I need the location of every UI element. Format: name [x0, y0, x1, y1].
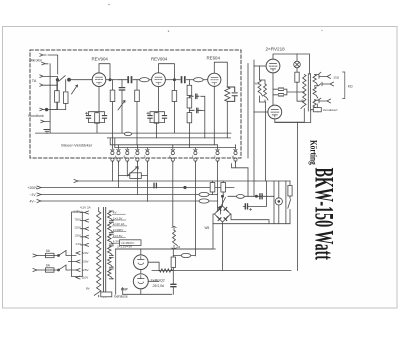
- node switch left dot: [56, 79, 58, 81]
- fuse F1: [46, 253, 55, 257]
- svg-text:150V: 150V: [82, 260, 89, 264]
- output tube V5 electrodes: [271, 110, 279, 117]
- bridge rectifier BR1 cells: [217, 208, 228, 221]
- wire V5 grid: [254, 111, 268, 113]
- wire bridge right: [231, 214, 270, 224]
- svg-text:G: G: [214, 154, 216, 158]
- wire decoupling common: [201, 96, 205, 133]
- resistor R5b plate load V2: [173, 80, 175, 91]
- svg-text:PhP: PhP: [121, 288, 128, 292]
- wire tubes link: [140, 249, 142, 294]
- svg-text:2×RGQ2: 2×RGQ2: [151, 279, 165, 283]
- capacitor C13: [279, 88, 284, 90]
- potentiometer P3 arrow: [128, 167, 138, 176]
- switch S4 blade N: [59, 265, 67, 270]
- wire R1 R2 bottom join: [50, 102, 66, 109]
- dashed enclosure of control amplifier: [30, 50, 241, 158]
- rectifier tube V6 filament: [138, 257, 145, 265]
- wire heater bottom row: [123, 293, 172, 295]
- wire inter-tube vertical: [272, 73, 274, 105]
- wire cathode parts to rail: [89, 119, 105, 133]
- terminal arrow bus 4: [37, 200, 41, 203]
- terminal arrow bus 1: [74, 180, 78, 183]
- resistor R6 oval grid stopper: [194, 78, 204, 82]
- wire R6 to V3 grid: [203, 79, 208, 81]
- tap arrow 125V: [76, 269, 80, 272]
- wire bus 1: [78, 180, 256, 182]
- svg-text:A: A: [115, 154, 117, 158]
- potentiometer P3 box: [130, 173, 142, 179]
- pin A0: [111, 138, 114, 163]
- wire B+ loop right: [297, 122, 299, 270]
- pin E: [171, 145, 174, 163]
- node bridge top dot: [221, 195, 223, 197]
- svg-text:2×3,5V: 2×3,5V: [113, 216, 123, 220]
- svg-text:4,75V: 4,75V: [73, 209, 80, 213]
- transformer T2 core: [103, 208, 105, 298]
- wire V2 cathode parts to rail: [150, 119, 165, 133]
- wire cap to R6: [186, 79, 193, 81]
- wire secondary tap 3: [315, 98, 321, 100]
- wire V5 plate to transformer bottom: [275, 109, 305, 123]
- svg-text:4,2V 2A: 4,2V 2A: [80, 206, 91, 210]
- wire grid leak drops: [57, 80, 66, 91]
- capacitor C7 plus: [147, 112, 149, 114]
- bridge rectifier BR1: [215, 206, 231, 222]
- wire pin feed upper: [110, 138, 217, 145]
- wire tube V6 right heater: [148, 262, 159, 281]
- resistor R15 hanging: [222, 181, 224, 183]
- wire lamp branch: [296, 54, 298, 72]
- wire bottom long return: [152, 270, 291, 272]
- resistor R3 plate load: [112, 80, 114, 90]
- transformer T2 secondary winding right: [108, 211, 113, 279]
- capacitor C1 coupling: [128, 77, 131, 82]
- inductor L3 grid choke: [258, 66, 263, 102]
- meter M1: [275, 198, 282, 205]
- fuse F2: [46, 268, 55, 272]
- input jack Rundfunk upper: [40, 108, 46, 111]
- triode V3 RE604 envelope: [208, 73, 221, 86]
- capacitor C15 on bus2: [154, 183, 156, 187]
- switch S2 blade: [221, 198, 226, 208]
- pin H: [234, 145, 237, 163]
- terminal arrow mains L: [33, 254, 37, 257]
- svg-text:750V: 750V: [75, 218, 81, 222]
- rectifier tube V7 filament: [138, 276, 145, 284]
- triode V2 electrodes: [155, 77, 162, 84]
- svg-text:110V: 110V: [82, 276, 89, 280]
- node S2 dots: [219, 206, 221, 208]
- wire V2 cathode drop: [150, 87, 165, 116]
- node input junction dot: [45, 108, 48, 111]
- triode V1 REV904 envelope: [92, 73, 106, 87]
- svg-text:H: H: [232, 154, 234, 158]
- lamp LP1: [294, 61, 301, 68]
- speck top right: [321, 30, 322, 31]
- wire pin F drop: [194, 161, 196, 256]
- wire R19 row: [173, 255, 195, 257]
- svg-text:6,3V: 6,3V: [113, 240, 119, 244]
- capacitor C4: [86, 116, 90, 119]
- svg-text:220V: 220V: [75, 226, 81, 230]
- wire right branch down: [273, 181, 275, 224]
- svg-text:Mikrofon: Mikrofon: [29, 58, 42, 62]
- svg-text:−2V: −2V: [30, 193, 37, 197]
- svg-text:a=4V 2A: a=4V 2A: [113, 222, 125, 226]
- wire fuse to switch: [54, 256, 59, 271]
- wire V3 cathode: [213, 86, 215, 133]
- capacitor C16 series dark: [260, 194, 262, 199]
- wire winding ends: [98, 208, 100, 297]
- potentiometer P1 arrow: [72, 85, 78, 94]
- svg-text:2×300V: 2×300V: [113, 228, 123, 232]
- resistor R14 hanging: [212, 181, 214, 183]
- wire switch to V1 grid: [70, 79, 92, 81]
- wire switch to primary taps: [66, 251, 76, 271]
- node switch right dot: [68, 78, 71, 81]
- rectifier tube V7 envelope: [133, 274, 148, 289]
- input jack TA upper: [40, 75, 50, 78]
- capacitor C18: [171, 284, 176, 286]
- wire mic to selector bus: [48, 55, 58, 74]
- terminal arrow mains N: [33, 269, 37, 272]
- svg-text:E: E: [169, 154, 171, 158]
- output tube V4 electrodes: [269, 64, 277, 71]
- svg-text:4V: 4V: [113, 211, 117, 215]
- output tube V5 RV218 envelope: [268, 105, 282, 119]
- wire bridge bottom down: [222, 223, 224, 271]
- ground symbol: [44, 130, 50, 134]
- svg-text:+200V: +200V: [28, 186, 39, 190]
- rheostat RH1 arrows: [172, 226, 176, 249]
- transformer T2 secondary taps left: [81, 211, 89, 277]
- capacitor C2 blocking: [119, 88, 124, 90]
- wire input ground drop: [49, 122, 51, 134]
- resistor R12 oval bus3: [199, 192, 209, 196]
- svg-text:2×3,5V=3A: 2×3,5V=3A: [117, 245, 132, 249]
- svg-text:2,5V: 2,5V: [76, 242, 82, 246]
- wire caps tie: [273, 89, 304, 95]
- wire V3 top to cathode coil: [214, 62, 227, 87]
- resistor R10 divider low: [188, 108, 190, 113]
- wire P2 to ground: [121, 102, 123, 134]
- wire secondary tap 2: [315, 84, 321, 86]
- wire meter stems: [278, 181, 280, 224]
- wire heater common row: [108, 137, 231, 139]
- input jack Mikrofon upper: [40, 54, 46, 57]
- wire pin feed lower: [115, 138, 236, 148]
- wire secondary common drop: [316, 104, 318, 108]
- pin D: [146, 148, 149, 163]
- svg-text:W5: W5: [255, 82, 260, 86]
- terminal arrow bus 2: [37, 186, 41, 189]
- terminal arrow out 3: [319, 99, 331, 103]
- svg-text:KΩ: KΩ: [348, 85, 353, 89]
- wire secondary tap 1: [315, 72, 321, 74]
- wire V1 plate line: [106, 79, 119, 81]
- wire V1 cathode drop: [89, 87, 105, 116]
- svg-text:REV904: REV904: [92, 57, 109, 62]
- resistor R20 oval on rail: [124, 132, 131, 135]
- switch S4 blade L: [59, 251, 67, 256]
- node junction dot row196: [255, 195, 257, 197]
- resistor R13 oval bus4: [199, 199, 209, 203]
- capacitor C6 coupling: [182, 77, 185, 82]
- wire S2 to bridge: [219, 207, 221, 214]
- wire secondary tap rows right: [109, 211, 113, 279]
- wire bridge left down: [116, 214, 215, 249]
- svg-text:2×3,5V: 2×3,5V: [113, 234, 123, 238]
- resistor R1: [55, 91, 60, 103]
- pin F: [194, 148, 197, 163]
- capacitor C17 electrolytic: [245, 204, 247, 209]
- capacitor C5: [102, 116, 106, 119]
- wire pot tap: [74, 89, 76, 91]
- svg-text:25Ω: 25Ω: [334, 75, 340, 79]
- wire pin A drop: [118, 161, 120, 188]
- resistor R4 cathode: [95, 113, 100, 124]
- resistor R19 oval: [181, 253, 191, 257]
- capacitor C7: [148, 116, 152, 119]
- inductor L5 heater winding: [158, 269, 172, 272]
- svg-text:REV904: REV904: [151, 57, 168, 62]
- resistor R2: [63, 92, 68, 104]
- wire bus3 cont: [209, 195, 218, 202]
- svg-text:Rundfunk: Rundfunk: [28, 114, 44, 118]
- tap arrow 220V: [76, 252, 80, 255]
- capacitor C9 decoupling: [189, 94, 198, 99]
- svg-text:W5: W5: [205, 226, 210, 230]
- potentiometer P2 arrow: [118, 101, 125, 111]
- pin A: [117, 145, 120, 163]
- wire control bottom bus: [213, 223, 290, 225]
- svg-text:25/1,5d: 25/1,5d: [152, 284, 164, 288]
- wire mains N: [37, 269, 46, 271]
- resistor R7 cathode: [154, 113, 159, 124]
- wire pin C drop: [136, 161, 138, 195]
- wire pin A0 drop: [111, 161, 113, 181]
- tap arrow 150V: [69, 260, 81, 263]
- svg-text:Körting: Körting: [308, 140, 319, 165]
- wire choke to V2 grid: [149, 79, 152, 81]
- pin G: [216, 145, 219, 163]
- capacitor C4 electrolytic plus: [85, 112, 87, 114]
- transformer T1 secondary winding: [313, 75, 318, 111]
- svg-text:≈2×350V≈: ≈2×350V≈: [121, 241, 135, 245]
- svg-text:P: P: [302, 99, 304, 103]
- capacitor C11 bypass: [227, 87, 237, 101]
- wire meter loop side: [285, 181, 287, 224]
- transformer T1 primary winding: [301, 75, 306, 109]
- svg-text:C: C: [134, 154, 136, 158]
- ground chassis rail: [36, 132, 232, 134]
- switch S1 blade: [59, 76, 66, 82]
- svg-text:125V: 125V: [82, 268, 89, 272]
- output tube V4 RV218 envelope: [266, 59, 280, 73]
- wire heater supply top: [115, 249, 117, 294]
- speck top center: [168, 31, 169, 32]
- terminal arrow bus 3: [37, 193, 41, 196]
- svg-text:125V: 125V: [75, 234, 81, 238]
- tap arrow 110V: [76, 276, 80, 279]
- pin B: [126, 148, 129, 163]
- wire choke return drop: [265, 102, 267, 181]
- rectifier tube V6 envelope: [134, 255, 149, 270]
- wire ground bottom left: [122, 288, 124, 295]
- wire pin D drop: [146, 161, 148, 201]
- terminal arrow out 2: [322, 82, 334, 86]
- input jack TA lower: [40, 84, 50, 87]
- node bus2 dot: [184, 186, 186, 188]
- wire V4 grid: [254, 65, 266, 67]
- resistor R5 screen: [136, 80, 138, 90]
- terminal arrow out 1: [319, 75, 331, 79]
- resistor R17: [289, 181, 291, 186]
- svg-text:Steuer-Verstärker: Steuer-Verstärker: [61, 142, 93, 147]
- triode V3 electrodes: [211, 77, 218, 84]
- triode V1 electrodes: [95, 77, 102, 84]
- pin C: [136, 145, 139, 163]
- capacitor C14: [279, 94, 284, 96]
- input jack Rundfunk lower: [41, 120, 50, 123]
- wire bus 4: [41, 200, 199, 202]
- wire R11 to primary tap: [297, 82, 304, 101]
- wire bus 3: [41, 194, 199, 196]
- bias cell box: [120, 240, 142, 246]
- inductor L2 cathode coil: [225, 87, 230, 102]
- wire pin H drop: [235, 161, 237, 163]
- wire pin E drop: [172, 161, 174, 226]
- svg-text:RE604: RE604: [207, 56, 221, 61]
- svg-text:Verstärkerf.: Verstärkerf.: [323, 108, 339, 112]
- wire bus1 extension right: [256, 180, 290, 182]
- svg-text:B: B: [124, 154, 126, 158]
- wire bus 2: [41, 187, 234, 189]
- switch S3 blade: [288, 196, 291, 224]
- capacitor C10 decoupling: [189, 108, 200, 113]
- svg-text:Gehäuse: Gehäuse: [114, 295, 128, 299]
- resistor R18: [172, 249, 174, 257]
- wire band verticals: [108, 133, 228, 148]
- transformer T1 core: [308, 74, 310, 112]
- wire C2 branch vertical: [121, 80, 123, 102]
- wire V4 plate to transformer top: [273, 54, 310, 74]
- wire input common vertical: [49, 64, 51, 122]
- wire pot to bus: [119, 175, 148, 177]
- wire rheostat top: [173, 225, 175, 227]
- wire socket drop: [275, 110, 318, 123]
- input jack Mikrofon lower: [42, 62, 48, 65]
- resistor R11: [295, 72, 299, 82]
- svg-text:220V: 220V: [82, 251, 89, 255]
- svg-text:2×RV218: 2×RV218: [266, 47, 286, 52]
- wire V2 plate top jog: [159, 64, 175, 80]
- capacitor C8: [162, 116, 166, 119]
- wire V1 plate top jog: [92, 64, 110, 80]
- svg-text:8V: 8V: [86, 287, 90, 291]
- triode V2 REV904 envelope: [152, 73, 166, 87]
- inductor L1 oval: [140, 78, 150, 82]
- wire selector to switch pivot: [47, 85, 58, 109]
- resistor R9 divider mid: [188, 96, 190, 98]
- svg-text:TA: TA: [32, 79, 37, 83]
- node switch dots: [58, 255, 60, 257]
- wire pin G drop: [217, 161, 219, 210]
- wire C18 stub: [172, 271, 174, 295]
- bracket speaker group: [343, 72, 345, 99]
- speck top margin: [108, 4, 110, 6]
- wire anode row top: [116, 248, 216, 250]
- wire TA to switch: [50, 76, 57, 85]
- svg-text:4V~: 4V~: [30, 199, 36, 203]
- resistor R8 divider top: [188, 80, 190, 86]
- resistor R16 oval: [237, 195, 245, 199]
- svg-text:2a: 2a: [177, 245, 181, 249]
- wire mains L: [37, 255, 46, 257]
- inductor L4 grid choke: [260, 80, 269, 102]
- rheostat RH1 coil: [173, 230, 178, 245]
- wire coil bottom: [226, 101, 228, 133]
- wire primary left frame: [72, 212, 83, 277]
- output socket box: [313, 108, 321, 112]
- tap label ticks: [112, 214, 126, 243]
- wire row 206: [243, 181, 266, 206]
- wire cap to choke: [119, 79, 140, 81]
- chassis box Gehaeuse: [101, 292, 112, 297]
- svg-text:D: D: [144, 154, 146, 158]
- wire bridge top: [222, 196, 224, 206]
- capacitor C17 plus: [250, 208, 252, 210]
- transformer T2 main winding: [94, 212, 101, 296]
- wire V4 V5 grid feed vertical: [253, 60, 255, 196]
- wire pin B drop: [126, 161, 128, 176]
- wire heater winding ends down: [158, 271, 172, 282]
- wire V2 plate line: [165, 79, 180, 81]
- svg-text:BKW-150 Watt: BKW-150 Watt: [309, 168, 339, 260]
- node V1 plate dot: [109, 79, 111, 81]
- node V2 plate dot: [173, 79, 175, 81]
- wire row 196: [228, 195, 274, 197]
- wire jog below pin H: [232, 64, 248, 197]
